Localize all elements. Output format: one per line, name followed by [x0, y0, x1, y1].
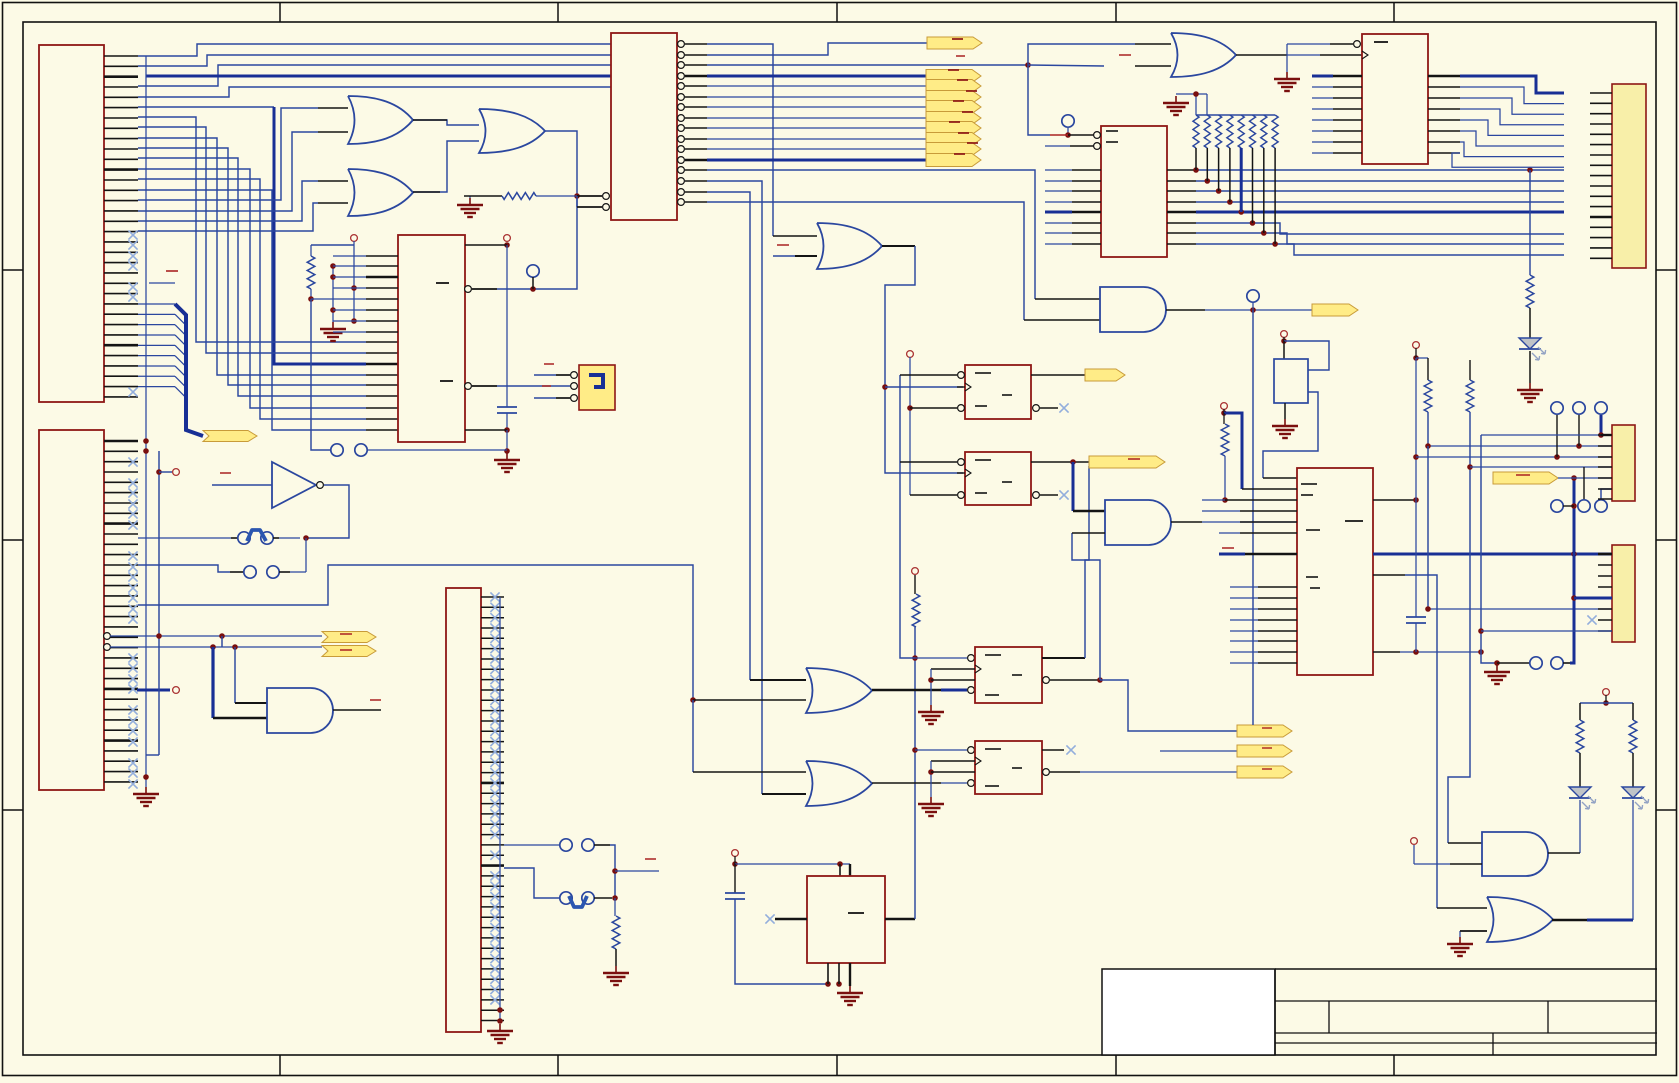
wire column x1253 — [1252, 310, 1254, 725]
pin — [1373, 651, 1400, 653]
wire — [915, 657, 967, 659]
wire U7 out — [306, 485, 349, 538]
junction — [303, 535, 309, 541]
wire — [1224, 413, 1225, 500]
connector J4 pins — [481, 597, 504, 1021]
ic U6R right staircase wires — [1428, 76, 1564, 167]
pin — [1166, 309, 1205, 311]
wire — [353, 241, 355, 245]
wire — [1400, 651, 1481, 653]
label dash — [166, 270, 178, 272]
ground — [603, 966, 629, 985]
pin — [1240, 532, 1297, 534]
capacitor C1 — [497, 407, 517, 413]
wire U1B out — [533, 131, 577, 289]
wire U2.15 to U11A — [707, 192, 750, 680]
wire — [464, 196, 502, 198]
wire — [1529, 170, 1531, 275]
pullup circle — [1413, 342, 1420, 349]
pin — [1171, 521, 1202, 523]
pullup circle — [1603, 689, 1610, 696]
flag F3 — [926, 80, 981, 93]
wire bus B3 — [138, 148, 366, 385]
wire — [138, 537, 300, 539]
wire — [1416, 357, 1428, 359]
pin — [1072, 532, 1105, 534]
pin bubble — [1033, 405, 1040, 412]
pin — [318, 131, 348, 133]
test circles — [1551, 500, 1607, 512]
label dash — [1119, 54, 1131, 56]
no-connect — [1587, 615, 1596, 624]
label dash — [1222, 547, 1234, 549]
pin — [1320, 54, 1362, 56]
wire — [1579, 753, 1581, 787]
resistor array column wires — [1196, 148, 1275, 244]
wire — [110, 635, 322, 637]
wire — [1583, 467, 1585, 499]
label dash — [370, 699, 381, 701]
ic U5 left pins — [1045, 170, 1101, 244]
junction — [1221, 410, 1227, 416]
flag F9 — [926, 143, 981, 156]
led D1 — [1519, 338, 1546, 360]
wire — [931, 668, 975, 670]
connector J5 — [1612, 84, 1646, 268]
junction — [837, 861, 843, 867]
ground — [1163, 96, 1189, 115]
flag F13 — [1237, 725, 1292, 737]
label dash — [615, 192, 626, 203]
label dash — [985, 655, 1022, 695]
wire — [610, 845, 615, 898]
pin — [235, 702, 267, 704]
wire — [692, 700, 694, 772]
wire — [497, 385, 570, 387]
ground — [918, 797, 944, 816]
wire rail x159 — [146, 451, 159, 755]
pin — [1460, 930, 1487, 932]
wire — [1601, 489, 1612, 500]
pin — [1245, 553, 1297, 556]
wire bus B4 — [138, 158, 366, 396]
junction — [143, 438, 149, 454]
jumper W5 — [1497, 657, 1570, 669]
junction x resistor columns — [1193, 167, 1278, 247]
junction — [156, 469, 162, 475]
wire U2.14 to U11B — [707, 181, 762, 794]
jumper W1 — [231, 530, 279, 544]
resistor R1 — [307, 256, 315, 289]
pin — [1040, 407, 1058, 409]
no-erc circle — [1247, 290, 1259, 302]
label dash — [956, 55, 965, 57]
junction — [504, 427, 510, 433]
wire bus B1 — [138, 127, 366, 353]
wire U2.2 to flag — [707, 43, 927, 55]
ground — [837, 986, 863, 1005]
wire — [1481, 434, 1601, 436]
flag F7 — [926, 122, 981, 135]
junction — [1413, 497, 1419, 503]
wire — [1202, 521, 1297, 523]
wire thick — [1072, 462, 1075, 511]
junction — [330, 263, 336, 313]
connector J7 — [1612, 545, 1635, 642]
pin — [366, 395, 398, 397]
flip-flop U6A — [965, 365, 1031, 419]
wire — [915, 749, 967, 751]
led D3 — [1622, 787, 1649, 809]
junction — [907, 405, 913, 411]
wire — [305, 538, 307, 572]
junction — [690, 697, 696, 703]
wire — [1050, 134, 1068, 136]
wire — [1427, 412, 1429, 446]
resistor R15 — [1424, 380, 1432, 412]
wire — [1283, 341, 1285, 359]
pin — [1330, 43, 1353, 45]
wire — [734, 856, 736, 864]
pin — [318, 107, 348, 109]
junction — [1413, 649, 1484, 655]
or-gate U11A — [806, 668, 872, 713]
pullup circle — [1221, 403, 1228, 410]
wire bus B5 — [138, 169, 366, 408]
pin — [1050, 771, 1080, 773]
flag F18 — [1312, 304, 1358, 316]
wire — [941, 689, 967, 692]
wire column x1470 — [1448, 412, 1470, 843]
wire — [1529, 308, 1531, 338]
pin — [1042, 657, 1085, 659]
and-gate U12 — [267, 688, 333, 733]
wire — [1632, 753, 1634, 787]
component Y1 crystal — [1274, 359, 1308, 403]
pin bubble — [465, 286, 472, 293]
pin — [318, 180, 348, 182]
wire clock chain — [885, 246, 963, 473]
pin — [900, 374, 957, 376]
pullup circle — [907, 351, 914, 358]
pullup circle — [1411, 838, 1418, 845]
wire — [885, 386, 963, 388]
pin — [775, 918, 807, 920]
connector J7 pins — [1598, 554, 1612, 631]
wire bus B2 — [138, 138, 366, 375]
no-connect marks J1 — [128, 230, 137, 396]
pin — [1068, 134, 1094, 136]
pin bubble — [968, 655, 975, 662]
junction — [732, 861, 738, 867]
wire — [1287, 44, 1320, 55]
junction — [1413, 355, 1419, 361]
pin — [1242, 488, 1297, 490]
or-gate U1A — [348, 96, 413, 144]
flip-flop U13B — [975, 741, 1042, 794]
connector J1 pins — [104, 56, 138, 397]
junction — [1193, 91, 1199, 97]
wire — [1176, 94, 1207, 115]
pin bubble — [958, 459, 965, 466]
connector J2 pins — [104, 441, 138, 782]
wire bus A1 — [138, 55, 611, 66]
wire U2.3 — [707, 64, 1028, 66]
wire — [1415, 623, 1417, 652]
junction — [1603, 700, 1609, 706]
jumper W4 — [560, 892, 612, 907]
pin bubble — [1033, 492, 1040, 499]
junction — [1598, 432, 1604, 438]
wire — [234, 647, 236, 703]
wire — [1263, 392, 1318, 478]
and-gate U14 — [1105, 500, 1171, 545]
wires U2 to flag column — [707, 76, 926, 160]
pin — [1024, 319, 1100, 321]
wire — [506, 430, 508, 451]
pin — [762, 793, 806, 795]
flag F1 — [927, 37, 982, 49]
pin — [872, 782, 941, 784]
inverter U7 — [272, 462, 323, 508]
pin bubble — [1043, 769, 1050, 776]
resistor R14 — [1221, 424, 1229, 456]
pin — [333, 709, 381, 711]
wire bus B6 — [138, 179, 366, 419]
wire — [914, 575, 916, 594]
wire — [504, 844, 560, 846]
junction — [1571, 551, 1577, 557]
pullup circle — [351, 235, 358, 242]
label dash — [436, 283, 453, 381]
junction — [612, 868, 618, 901]
connector J3 pins — [534, 372, 577, 402]
wire rail — [1196, 114, 1275, 116]
junction — [504, 242, 510, 248]
pullup circle — [732, 850, 739, 857]
flag F19 — [1493, 472, 1558, 484]
wire — [1600, 415, 1603, 435]
resistor R13 — [1526, 275, 1534, 308]
led D2 — [1569, 787, 1596, 809]
ic U2 — [611, 33, 677, 220]
pin — [1070, 145, 1094, 147]
wire — [1574, 597, 1612, 600]
ic U5 right pin wires — [1167, 170, 1564, 255]
pin — [910, 494, 957, 496]
pin — [366, 384, 398, 386]
wire — [1286, 55, 1288, 72]
pin — [366, 418, 398, 420]
wire — [577, 206, 602, 208]
flag F12 — [322, 646, 376, 657]
wire to U8A in1 — [1028, 44, 1135, 65]
pin — [1373, 574, 1405, 576]
junction — [504, 448, 510, 454]
capacitor C2 — [725, 893, 745, 899]
flag F6 — [926, 112, 981, 125]
pin — [1548, 852, 1580, 854]
wire thick column x1574 — [1570, 478, 1574, 663]
wire thick — [1224, 413, 1242, 489]
wire — [1416, 456, 1612, 458]
ground — [494, 453, 520, 472]
and-gate U15 — [1482, 832, 1548, 876]
wire — [1045, 145, 1070, 147]
flag F8 — [926, 133, 981, 146]
wire — [221, 636, 223, 647]
wire — [1219, 532, 1240, 534]
pin bubble — [1354, 41, 1361, 48]
no-connect marks J2 — [128, 457, 137, 788]
wire — [1460, 931, 1487, 937]
pin — [366, 374, 398, 376]
wire — [900, 375, 915, 658]
wire thick — [211, 647, 214, 718]
pin — [900, 461, 957, 463]
wire — [1219, 553, 1245, 556]
flip-flop U6B — [965, 452, 1031, 505]
pin bubble — [958, 405, 965, 412]
ic U10 — [807, 876, 885, 963]
wire U1C out to U1B — [413, 141, 479, 192]
or-gate U1B — [479, 109, 545, 153]
flag BUS1 — [203, 431, 257, 442]
wire — [1414, 845, 1450, 864]
wire — [1416, 553, 1612, 556]
wire — [367, 449, 507, 451]
wire U2.16 to U8B in2 — [707, 202, 1024, 320]
resistor R2 — [502, 193, 536, 200]
wire — [1415, 358, 1417, 617]
wire long to U11 — [138, 565, 693, 700]
wire — [1072, 533, 1100, 680]
wire — [1470, 466, 1612, 468]
pin — [1040, 494, 1058, 496]
wire — [1205, 309, 1312, 311]
ground — [1447, 937, 1473, 956]
junction — [530, 286, 536, 292]
ic U6R — [1362, 34, 1428, 164]
wire — [506, 245, 508, 407]
pin — [1373, 499, 1416, 501]
wire — [1160, 750, 1237, 752]
pin — [872, 689, 941, 692]
junction — [1527, 167, 1533, 173]
wire — [1284, 403, 1286, 419]
junction — [1467, 464, 1473, 470]
label dash — [975, 460, 1012, 493]
label dash — [220, 472, 231, 474]
or-gate U11B — [806, 761, 872, 806]
wire — [1427, 358, 1429, 380]
ground — [487, 1024, 513, 1043]
connector J6 — [1612, 425, 1635, 501]
wire — [1469, 360, 1471, 380]
wire U2.1 to U4A — [707, 44, 773, 236]
pin — [931, 771, 975, 773]
wire — [1067, 128, 1069, 135]
wire to U5 — [1028, 65, 1050, 135]
pullup circle — [173, 687, 180, 694]
wire — [1202, 499, 1225, 501]
wire U2.13 to U8B — [707, 170, 1035, 299]
wire to OR3 in2 — [138, 203, 318, 231]
jumper W3 — [560, 839, 610, 851]
or-gate U16 — [1487, 897, 1553, 942]
pin bubble — [968, 687, 975, 694]
junction — [156, 633, 162, 639]
wire column x915 — [914, 627, 916, 919]
wire — [1427, 446, 1429, 609]
pin — [366, 341, 398, 343]
or-gate U8A — [1171, 33, 1236, 77]
pin — [1042, 749, 1064, 751]
wire — [1563, 505, 1574, 507]
wire to flag — [1100, 680, 1237, 731]
connector J5 pins — [1590, 93, 1612, 258]
pin — [957, 386, 965, 388]
wire bus A2 — [138, 65, 611, 86]
jumper W2 — [230, 566, 290, 578]
junction — [497, 1007, 503, 1024]
pin — [465, 244, 507, 246]
junction — [1413, 454, 1419, 460]
wire — [532, 277, 534, 289]
pin — [882, 245, 915, 247]
pin — [366, 352, 398, 354]
no-connect marks J4 — [490, 592, 499, 1004]
pin — [693, 699, 806, 701]
connector J4 — [446, 588, 481, 1032]
pin — [1236, 54, 1287, 56]
wire — [159, 471, 172, 473]
wire — [311, 298, 333, 300]
clock mark — [975, 757, 981, 765]
connector J3 — [579, 365, 615, 410]
pin — [693, 771, 806, 773]
label dash — [985, 749, 1022, 786]
wire — [1283, 337, 1285, 341]
wire — [1284, 341, 1329, 370]
pin bubble — [1043, 677, 1050, 684]
wire to OR1 in1 — [138, 108, 318, 200]
ic U5 — [1101, 126, 1167, 257]
wire — [1080, 771, 1237, 773]
no-connect — [1059, 403, 1068, 412]
junction — [1025, 62, 1031, 68]
resistor R17 — [1576, 720, 1584, 753]
resistor R18 — [1629, 720, 1637, 753]
junction — [825, 981, 842, 987]
pin — [1450, 863, 1482, 865]
jumper circles — [331, 444, 367, 456]
and-gate U8B — [1100, 287, 1166, 332]
no-connect — [1066, 745, 1075, 754]
pin — [318, 202, 348, 204]
pin — [1240, 510, 1297, 512]
wire — [353, 245, 355, 321]
resistor array R5-R12 — [1193, 115, 1278, 148]
pin bubble — [465, 383, 472, 390]
wire bus A4 — [138, 87, 611, 97]
ic U2 right pins — [678, 41, 707, 206]
resistor R16 — [1466, 380, 1474, 412]
pin — [413, 191, 440, 193]
ic U3 left pins — [333, 256, 398, 332]
label dash — [848, 912, 864, 914]
pin bubble — [968, 780, 975, 787]
